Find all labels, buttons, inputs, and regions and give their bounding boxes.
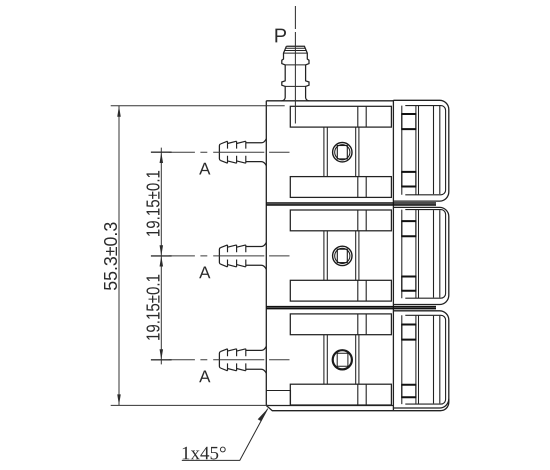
svg-text:A: A (199, 263, 211, 282)
svg-text:55.3±0.3: 55.3±0.3 (101, 222, 121, 291)
svg-text:19.15±0.1: 19.15±0.1 (144, 274, 164, 341)
svg-text:1x45°: 1x45° (181, 443, 227, 464)
svg-text:A: A (199, 367, 211, 386)
svg-text:P: P (274, 25, 287, 47)
svg-text:A: A (199, 160, 211, 179)
svg-text:19.15±0.1: 19.15±0.1 (144, 170, 164, 237)
